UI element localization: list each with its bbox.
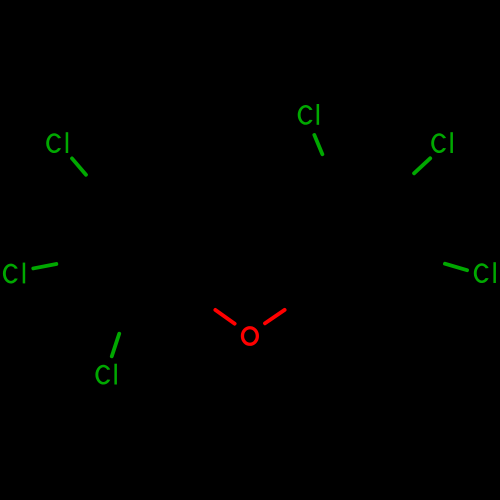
bond Cl3 half-bond	[112, 334, 119, 357]
atom label Cl5	[431, 132, 453, 153]
atom label Cl2	[3, 263, 25, 284]
atom label Cl4	[298, 104, 319, 125]
atom label Cl1	[46, 132, 68, 153]
bond Cl4 half-bond	[314, 135, 322, 154]
atom label Cl3	[95, 364, 116, 385]
bond Cl1 half-bond	[72, 158, 86, 174]
bond Cl2 half-bond	[33, 264, 56, 268]
atom label O	[242, 328, 257, 345]
bond Cl5 half-bond	[414, 158, 430, 173]
atom label Cl6	[474, 262, 496, 283]
bond Cl6 half-bond	[445, 264, 467, 270]
bond O-right half-bond	[265, 310, 285, 323]
bond O-left half-bond	[215, 310, 234, 324]
